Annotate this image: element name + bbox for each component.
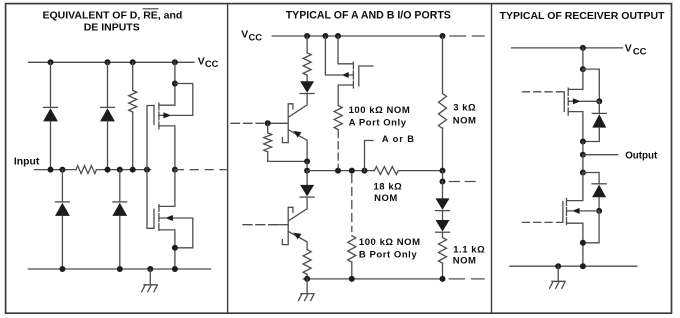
resistor R3 top wire xyxy=(306,36,308,53)
svg-text:A or B: A or B xyxy=(382,134,415,144)
node dot rail-R10 xyxy=(440,276,446,282)
resistor R10 (1.1k) xyxy=(439,238,447,264)
mosfet M1 gate lead wire xyxy=(147,106,154,170)
dashed wire tap to internal xyxy=(450,181,476,183)
transistor Q1 base lead solid xyxy=(266,122,288,124)
svg-text:3 kΩ: 3 kΩ xyxy=(453,103,476,114)
node dot drain-D9 xyxy=(580,139,586,145)
wire VCC to R7 xyxy=(442,36,444,94)
node dot row-R9 xyxy=(349,168,355,174)
svg-text:Input: Input xyxy=(14,157,40,168)
transistor Q2 collector wire xyxy=(288,197,307,221)
mosfet M3 source wire xyxy=(338,36,353,64)
svg-text:CC: CC xyxy=(205,58,219,69)
mosfet M5 gate bar xyxy=(559,202,563,223)
svg-text:1.1 kΩ: 1.1 kΩ xyxy=(453,245,485,256)
transistor Q2 base lead dashed xyxy=(243,224,277,226)
diode D4 xyxy=(112,202,127,216)
input row wire right xyxy=(97,169,151,171)
wire emitter junction to row xyxy=(306,161,308,170)
A/B row wire right xyxy=(398,170,442,172)
resistor R1 bottom wire xyxy=(132,112,134,170)
node dot rail-M5 xyxy=(580,263,586,269)
diode D7 (pointing down) xyxy=(436,198,450,210)
node dot internal tap xyxy=(440,179,446,185)
resistor R8 (18k) xyxy=(374,167,398,175)
title line 1: EQUIVALENT OF D, RE, and xyxy=(42,9,182,21)
mosfet M4 channel bar xyxy=(567,88,569,115)
transistor Q1 base bar with hooks xyxy=(282,104,293,143)
ground stub wire xyxy=(557,266,559,281)
node dot row-right xyxy=(440,168,446,174)
node dot rail-R9 xyxy=(349,276,355,282)
mosfet M1 body stub and loop xyxy=(159,84,193,116)
transistor Q2 base lead solid xyxy=(277,224,289,226)
resistor R2 (series input) xyxy=(76,166,96,174)
diode D4 anode wire xyxy=(119,216,121,269)
svg-text:Output: Output xyxy=(625,150,658,161)
mosfet M1 channel bar xyxy=(158,103,160,129)
svg-text:CC: CC xyxy=(249,31,263,42)
transistor Q1 emitter wire xyxy=(288,130,307,162)
svg-text:18 kΩ: 18 kΩ xyxy=(373,181,402,192)
node dot Q1 emitter junction xyxy=(304,158,310,164)
transistor Q2 base bar with hooks xyxy=(282,207,293,244)
transistor Q1 base lead dashed xyxy=(231,122,264,124)
resistor R5 xyxy=(303,250,311,275)
mosfet M2 body arrow xyxy=(165,215,173,221)
svg-text:NOM: NOM xyxy=(374,193,398,204)
node dot M2 source-body xyxy=(172,245,178,251)
wire D8 to R10 xyxy=(442,232,444,237)
node dot rail-D3 xyxy=(59,266,65,272)
mosfet M2 gate lead wire xyxy=(147,170,154,229)
svg-text:CC: CC xyxy=(633,45,647,56)
node dot row-left xyxy=(304,168,310,174)
VCC rail wire xyxy=(28,61,194,63)
resistor R4 bottom wire xyxy=(268,152,307,162)
transistor Q2 emitter arrow xyxy=(293,233,301,240)
node dot M4 body-D9 xyxy=(596,98,602,104)
VCC rail wire xyxy=(272,35,442,37)
mosfet M4 body arrow xyxy=(573,98,581,104)
resistor R3 bottom wire xyxy=(306,75,308,81)
svg-text:V: V xyxy=(241,30,248,41)
resistor R4 xyxy=(264,133,272,152)
svg-text:V: V xyxy=(625,44,632,55)
mosfet M5 source stub xyxy=(567,223,583,266)
node dot rail-R1 xyxy=(130,59,136,65)
dashed wire R6 to row xyxy=(337,131,339,169)
dashed wire to internal circuit xyxy=(190,169,226,171)
node dot M1 source-body xyxy=(172,81,178,87)
resistor R10 bottom wire xyxy=(442,263,444,279)
dashed wire row to R9 xyxy=(351,175,353,232)
mosfet M4 body stub xyxy=(568,100,599,102)
diode D3 xyxy=(55,202,70,216)
VCC label xyxy=(241,30,262,43)
diode D3 cathode wire xyxy=(61,170,63,202)
wire row to tap xyxy=(442,171,444,182)
mosfet M3 drain wire xyxy=(338,85,353,106)
18k NOM label xyxy=(373,181,402,204)
mosfet M5 body arrow xyxy=(572,208,580,214)
node dot D10 branch xyxy=(580,170,586,176)
mosfet M3 gate bar and lead xyxy=(359,66,373,86)
diode D5 (pointing down) xyxy=(300,81,314,93)
ground rail wire xyxy=(510,265,637,267)
wire body node to source node xyxy=(583,211,599,243)
mosfet M4 drain stub xyxy=(568,112,583,142)
Output label xyxy=(625,150,658,161)
ground symbol right xyxy=(550,281,566,288)
diode D4 cathode wire xyxy=(119,170,121,202)
node dot row-D2 xyxy=(105,167,111,173)
transistor Q1 collector wire xyxy=(288,94,307,118)
mosfet M2 body stub and loop xyxy=(159,218,193,248)
node dot M4 source-body xyxy=(580,66,586,72)
bottom ground rail wire xyxy=(303,278,442,280)
ground stub wire xyxy=(149,269,151,285)
diode D1 anode wire xyxy=(50,121,52,169)
wire D10 to body node xyxy=(598,197,600,211)
title line 2: DE INPUTS xyxy=(84,21,140,33)
wire R7 to row xyxy=(442,128,444,171)
diode D6 top wire xyxy=(306,171,308,185)
transistor Q2 emitter wire xyxy=(288,232,307,250)
node dot M1/M2 drain junction xyxy=(172,167,178,173)
diode D2 xyxy=(100,107,115,121)
node dot output xyxy=(580,152,586,158)
wire tap to D7 xyxy=(442,182,444,199)
diode D1 xyxy=(43,107,58,121)
A or B label xyxy=(382,134,415,144)
mosfet M1 body arrow xyxy=(163,112,171,118)
title: TYPICAL OF A AND B I/O PORTS xyxy=(286,10,451,22)
wire to D10 xyxy=(583,173,599,184)
VCC rail wire xyxy=(512,47,623,49)
node dot M5 body xyxy=(596,208,602,214)
mosfet M1 source stub xyxy=(159,62,175,105)
node dot rail-D1 xyxy=(48,59,54,65)
output lead wire xyxy=(583,154,618,156)
VCC label xyxy=(625,44,647,57)
resistor R5 bottom wire xyxy=(306,274,308,279)
svg-text:B Port Only: B Port Only xyxy=(359,249,417,260)
node dot rail-R5 xyxy=(304,276,310,282)
mosfet M2 drain stub xyxy=(159,170,175,207)
wire drain node to output node xyxy=(582,142,584,155)
diode D8 (pointing down) xyxy=(436,220,450,232)
svg-text:100 kΩ NOM: 100 kΩ NOM xyxy=(349,105,411,116)
wire D7 to D8 xyxy=(442,211,444,220)
resistor R3 xyxy=(303,53,311,75)
diode D2 anode wire xyxy=(107,121,109,169)
input row wire left xyxy=(34,169,76,171)
resistor R1 top wire xyxy=(132,62,134,90)
resistor R1 xyxy=(129,90,137,112)
wire output node to D10 node xyxy=(582,155,584,173)
node dot rail-R7 xyxy=(440,33,446,39)
Input label xyxy=(14,157,40,168)
mosfet M3 body arrow xyxy=(342,72,349,78)
svg-text:DE INPUTS: DE INPUTS xyxy=(84,21,140,33)
wire rail to source node xyxy=(582,48,584,69)
node dot row-D4 xyxy=(117,167,123,173)
mosfet M2 channel bar xyxy=(158,205,160,231)
resistor R6 (100k A) xyxy=(334,106,342,130)
3k NOM label xyxy=(453,103,477,127)
wire body node to D9 xyxy=(598,101,600,113)
node dot rail-gnd xyxy=(555,263,561,269)
diode D10 (pointing up) xyxy=(592,184,606,198)
node dot M5 source-body xyxy=(580,240,586,246)
mosfet M5 gate dashed lead xyxy=(523,221,559,223)
panel separator 2 xyxy=(491,4,493,314)
svg-text:V: V xyxy=(198,56,205,67)
transistor Q1 emitter arrow xyxy=(293,131,301,138)
A/B row wire left xyxy=(307,170,374,172)
svg-text:NOM: NOM xyxy=(453,256,477,267)
svg-text:TYPICAL OF A AND B I/O PORTS: TYPICAL OF A AND B I/O PORTS xyxy=(286,10,451,22)
A or B stub wire xyxy=(365,141,374,171)
VCC label xyxy=(198,56,219,69)
dashed ground rail continuation xyxy=(449,278,484,280)
wire stub to internal xyxy=(175,169,183,171)
100k NOM B Port Only label xyxy=(359,237,421,260)
mosfet M4 gate bar xyxy=(558,92,564,112)
node dot rail-M4 xyxy=(580,45,586,51)
node dot row-D1 xyxy=(48,167,54,173)
mosfet M1 gate bar xyxy=(153,106,155,125)
diode D2 cathode wire xyxy=(107,62,109,107)
node dot rail-M1 xyxy=(172,59,178,65)
resistor R9 (100k B) xyxy=(348,236,356,262)
mosfet M3 channel bar xyxy=(352,62,354,88)
node dot row-R1 xyxy=(130,167,136,173)
svg-text:EQUIVALENT OF D, RE, and: EQUIVALENT OF D, RE, and xyxy=(42,9,182,21)
node dot row-gates xyxy=(144,167,150,173)
node dot row-D3 xyxy=(59,167,65,173)
mosfet M5 drain stub xyxy=(567,173,583,201)
mosfet M3 body wire xyxy=(325,36,353,75)
title: TYPICAL OF RECEIVER OUTPUT xyxy=(500,10,665,22)
panel separator 1 xyxy=(227,4,229,314)
mosfet M1 drain stub xyxy=(159,126,175,170)
mosfet M4 gate dashed lead xyxy=(523,91,559,93)
1.1k NOM label xyxy=(453,245,486,267)
node dot Q1 base xyxy=(265,120,271,126)
mosfet M5 channel bar xyxy=(566,199,568,225)
wire source node to D9 branch xyxy=(583,69,599,101)
wire D9 to drain node xyxy=(583,128,599,142)
resistor R9 bottom wire xyxy=(351,262,353,279)
node dot rail-D4 xyxy=(117,266,123,272)
node dot row-R6 xyxy=(335,168,341,174)
node dot row-AorB xyxy=(362,168,368,174)
mosfet M2 gate bar xyxy=(153,209,155,228)
node dot rail-D2 xyxy=(105,59,111,65)
dashed VCC rail continuation xyxy=(450,35,484,37)
ground stub wire xyxy=(306,279,308,294)
svg-text:A Port Only: A Port Only xyxy=(349,118,407,129)
diode D3 anode wire xyxy=(61,216,63,269)
ground symbol left xyxy=(142,285,158,292)
mosfet M5 body stub xyxy=(567,210,600,212)
node dot rail-M3body xyxy=(322,33,328,39)
diode D1 cathode wire xyxy=(50,62,52,107)
node dot rail-R3 xyxy=(304,33,310,39)
diode D6 (pointing down) xyxy=(300,185,314,197)
diode D9 (pointing up) xyxy=(592,113,606,127)
svg-text:NOM: NOM xyxy=(453,116,477,127)
resistor R7 (3k) xyxy=(439,94,447,129)
mosfet M2 source stub xyxy=(159,230,175,269)
svg-text:TYPICAL OF RECEIVER OUTPUT: TYPICAL OF RECEIVER OUTPUT xyxy=(500,10,665,22)
ground symbol middle xyxy=(299,294,315,301)
overline over RE xyxy=(143,8,158,10)
node dot rail-M2 xyxy=(172,266,178,272)
mosfet M4 source stub xyxy=(568,69,583,89)
node dot rail-M3source xyxy=(335,33,341,39)
node dot rail-gnd xyxy=(147,266,153,272)
svg-text:100 kΩ NOM: 100 kΩ NOM xyxy=(359,237,421,248)
resistor R4 top wire xyxy=(267,123,269,133)
100k NOM A Port Only label xyxy=(349,105,411,129)
bottom ground rail wire xyxy=(28,268,210,270)
